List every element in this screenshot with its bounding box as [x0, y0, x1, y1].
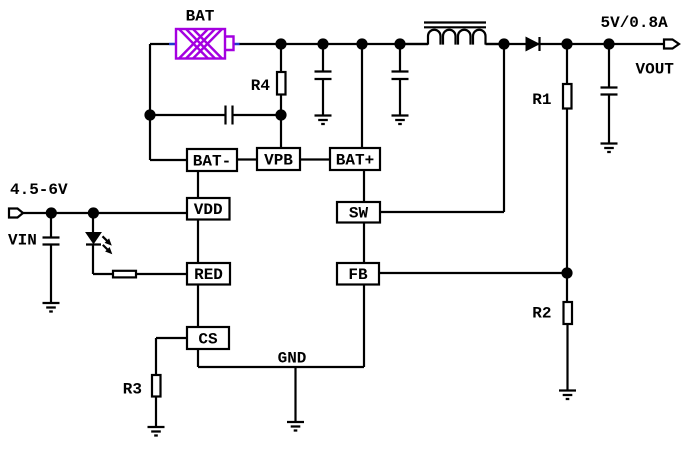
svg-text:5V/0.8A: 5V/0.8A [601, 14, 669, 32]
svg-text:BAT+: BAT+ [336, 152, 374, 170]
svg-text:FB: FB [348, 266, 368, 284]
svg-text:VPB: VPB [264, 152, 293, 170]
svg-text:VDD: VDD [194, 201, 223, 219]
svg-text:R3: R3 [123, 381, 142, 399]
svg-text:R2: R2 [532, 305, 551, 323]
svg-text:RED: RED [194, 266, 223, 284]
svg-text:BAT-: BAT- [193, 153, 231, 171]
svg-text:VIN: VIN [8, 232, 37, 250]
svg-text:VOUT: VOUT [636, 61, 675, 79]
svg-text:R1: R1 [532, 91, 551, 109]
svg-text:R4: R4 [251, 77, 271, 95]
svg-text:CS: CS [198, 331, 218, 349]
svg-text:4.5-6V: 4.5-6V [10, 181, 68, 199]
svg-text:GND: GND [278, 350, 307, 368]
svg-text:BAT: BAT [186, 8, 215, 26]
svg-text:SW: SW [349, 205, 369, 223]
